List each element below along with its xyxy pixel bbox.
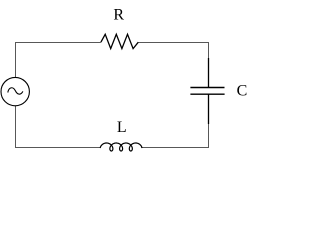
svg-text:C: C: [237, 83, 248, 100]
svg-text:L: L: [117, 119, 127, 136]
svg-text:R: R: [113, 7, 124, 24]
